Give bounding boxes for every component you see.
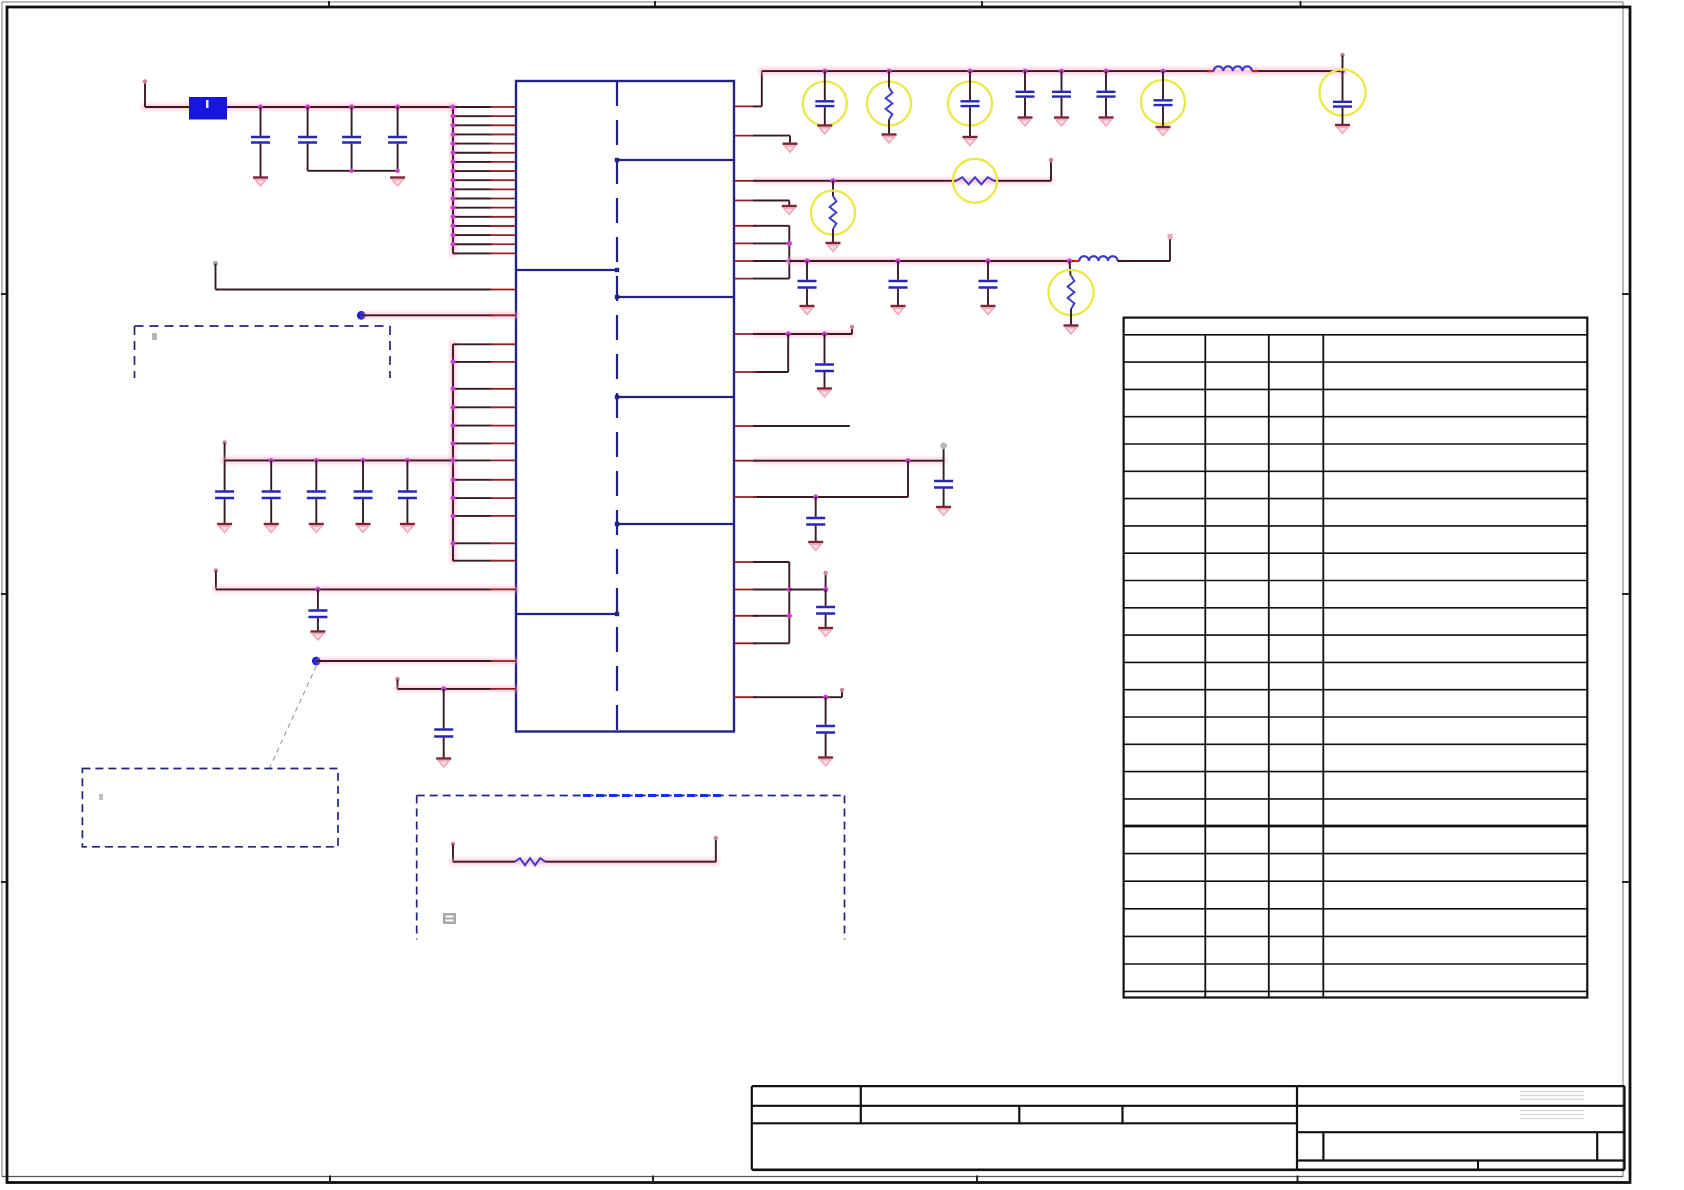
capacitor C20 (circled) bbox=[803, 71, 847, 125]
title block (left) bbox=[752, 1086, 1625, 1170]
capacitor C25 (circled) bbox=[1141, 71, 1185, 126]
ground bbox=[882, 135, 897, 143]
ground bbox=[891, 306, 906, 314]
wire bbox=[734, 458, 944, 463]
capacitor C5 bbox=[215, 460, 234, 524]
title block (right) bbox=[1297, 1086, 1625, 1170]
capacitor C10 bbox=[308, 589, 327, 631]
wire bbox=[789, 571, 828, 592]
ground bbox=[981, 306, 996, 314]
ground bbox=[1064, 326, 1079, 334]
node A (blue net dot) bbox=[357, 311, 516, 320]
node dots on bead rail bbox=[258, 104, 400, 109]
capacitor C11 bbox=[434, 689, 453, 759]
wire bbox=[734, 158, 1053, 184]
ground bbox=[782, 206, 797, 214]
resistor R1 bbox=[515, 858, 545, 865]
wire (left mid bus) bbox=[448, 344, 459, 560]
node dots on cap bank rail bbox=[269, 458, 410, 463]
ground bbox=[264, 524, 279, 532]
ground bbox=[356, 524, 371, 532]
wire bbox=[940, 442, 947, 460]
node B (blue net dot) bbox=[312, 657, 516, 666]
ground bbox=[1018, 118, 1033, 126]
resistor R4 (circled) bbox=[811, 181, 855, 243]
wire bbox=[1118, 234, 1173, 261]
ground bbox=[963, 137, 978, 145]
capacitor C30 bbox=[815, 334, 834, 388]
ground bbox=[826, 243, 841, 251]
wire bbox=[222, 440, 516, 463]
resistor R5 (circled) bbox=[1049, 261, 1094, 325]
capacitor C22 bbox=[1016, 71, 1035, 117]
wire bbox=[545, 836, 718, 862]
capacitor C24 bbox=[1097, 71, 1116, 117]
capacitor C26 (circled) bbox=[1320, 53, 1366, 125]
ferrite bead FB1 bbox=[189, 97, 227, 120]
ground bbox=[808, 542, 823, 550]
wire bbox=[451, 842, 716, 862]
ground bbox=[1054, 118, 1069, 126]
wire bbox=[227, 106, 453, 108]
capacitor C27 bbox=[798, 261, 817, 306]
wire bbox=[734, 425, 850, 427]
inductor L2 bbox=[1073, 256, 1124, 261]
capacitor C8 bbox=[354, 460, 373, 524]
ground bbox=[1156, 127, 1171, 135]
capacitor C23 bbox=[1052, 71, 1071, 117]
ground bbox=[390, 178, 405, 186]
ground bbox=[309, 524, 324, 532]
wire bbox=[734, 201, 789, 206]
capacitor C2 bbox=[298, 107, 317, 171]
ground bbox=[817, 389, 832, 397]
wire (right bus lower) bbox=[734, 562, 792, 643]
capacitor C9 bbox=[398, 460, 417, 524]
wire bbox=[213, 261, 516, 289]
wire bbox=[734, 325, 854, 337]
capacitor C29 bbox=[979, 261, 998, 306]
capacitor C28 bbox=[889, 261, 908, 306]
ground bbox=[800, 306, 815, 314]
wire (right bus upper) bbox=[734, 226, 792, 279]
capacitor C4 bbox=[388, 107, 407, 173]
ground bbox=[310, 632, 325, 640]
ground bbox=[1099, 118, 1114, 126]
wire bbox=[789, 258, 1079, 263]
pins U1 left mid bank bbox=[451, 344, 516, 560]
callout box (dashed) bbox=[135, 326, 391, 378]
capacitor C21 (circled) bbox=[948, 71, 992, 136]
resistor R3 (circled) bbox=[953, 159, 997, 203]
capacitor C31 bbox=[934, 461, 953, 507]
wire bbox=[395, 677, 516, 692]
capacitor C7 bbox=[307, 460, 326, 524]
capacitor C33 bbox=[816, 590, 835, 628]
note text bbox=[443, 913, 456, 924]
capacitor C32 bbox=[806, 497, 825, 542]
wire bbox=[734, 136, 790, 144]
wire (left pin bus) bbox=[448, 107, 459, 253]
capacitor C6 bbox=[262, 460, 281, 524]
ground bbox=[818, 758, 833, 766]
inductor L1 bbox=[1208, 66, 1259, 71]
wire bbox=[734, 71, 1343, 106]
leader line (dashed) bbox=[269, 666, 316, 769]
ground bbox=[936, 507, 951, 515]
pins U1 left bank bbox=[451, 105, 516, 254]
option box (dashed) bbox=[417, 796, 845, 940]
wire bbox=[734, 334, 788, 372]
ground bbox=[818, 628, 833, 636]
ground bbox=[1335, 125, 1350, 133]
ground bbox=[217, 524, 232, 532]
wire bbox=[145, 106, 189, 108]
wire bbox=[143, 79, 453, 107]
wire bbox=[734, 688, 844, 700]
note box (dashed) bbox=[82, 769, 338, 847]
resistor R2 (circled) bbox=[867, 71, 911, 134]
node dots on top rail bbox=[822, 69, 1345, 74]
wire bbox=[308, 169, 398, 173]
capacitor C1 bbox=[251, 107, 270, 177]
ground bbox=[253, 178, 268, 186]
ground bbox=[436, 759, 451, 767]
capacitor C3 bbox=[342, 107, 361, 171]
revision table bbox=[1124, 318, 1588, 998]
op-amp U1 (main IC block) bbox=[516, 81, 734, 732]
wire bbox=[214, 568, 516, 592]
ground bbox=[400, 524, 415, 532]
ground bbox=[783, 144, 798, 152]
capacitor C34 bbox=[816, 697, 835, 757]
wire bbox=[734, 461, 908, 500]
ground bbox=[817, 126, 832, 134]
